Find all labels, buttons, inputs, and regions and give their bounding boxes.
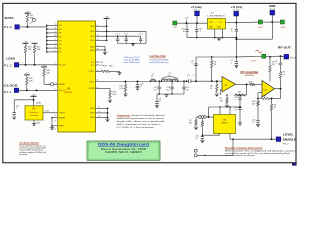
svg-text:12: 12 (54, 129, 56, 131)
wire IOUTB row (96, 88, 111, 89)
wire P1.4 (196, 16, 198, 24)
wire C11 gnd (239, 111, 241, 123)
svg-text:"+12V": "+12V" (257, 27, 263, 29)
ground U1 (32, 124, 36, 127)
svg-text:D0: D0 (59, 52, 61, 54)
svg-text:1.0: 1.0 (151, 76, 154, 78)
connector P1.3 pad (15, 25, 19, 29)
resistor R11 (26, 13, 34, 27)
connector P1.5 GND (269, 5, 276, 15)
power +5V flag R12 (23, 41, 29, 43)
svg-text:14 (E): 14 (E) (36, 103, 42, 105)
svg-text:U4a: U4a (224, 85, 227, 87)
capacitor C14 (13, 100, 20, 116)
title block (87, 141, 160, 160)
resistor R16 (43, 68, 51, 78)
wire tp to gnd node (262, 21, 280, 23)
svg-text:C1 .1: C1 .1 (115, 34, 120, 36)
power +5V flag R13 (32, 42, 38, 44)
svg-text:2.2: 2.2 (252, 122, 255, 124)
svg-text:GND: GND (90, 108, 95, 110)
ground AGND (103, 52, 107, 55)
svg-text:Low Pass Filter: Low Pass Filter (150, 54, 166, 58)
node bypass gnd rail (118, 43, 146, 45)
svg-text:.1: .1 (230, 63, 232, 65)
DDS chip U2 AD9851 (58, 21, 96, 132)
ground U3 rail (217, 38, 221, 41)
svg-text:1.2: 1.2 (168, 75, 171, 77)
ground R3 (215, 94, 219, 97)
svg-text:smooths DDS output steps: smooths DDS output steps (150, 61, 169, 64)
wires NC stubs (96, 62, 105, 67)
svg-text:82: 82 (154, 90, 156, 92)
svg-text:CLKIN: CLKIN (59, 113, 65, 115)
ground C11 (238, 123, 242, 126)
svg-text:110: 110 (166, 90, 169, 92)
wire +V to GND tps (236, 21, 258, 24)
resistor R24 wiper (201, 118, 203, 136)
svg-text:D7: D7 (59, 37, 61, 39)
resistor R7 out (279, 66, 285, 89)
connector P1.4 +5 out (191, 6, 202, 16)
testpoint +12V in (257, 20, 263, 29)
svg-text:AD9851: AD9851 (65, 91, 74, 94)
inductor L3 (170, 79, 178, 81)
svg-text:8: 8 (55, 89, 56, 91)
wire U5 in (206, 116, 214, 118)
connector P1.7 LEVEL ENABLE (276, 133, 296, 145)
svg-text:82: 82 (187, 90, 189, 92)
svg-text:.1: .1 (275, 63, 277, 65)
wires VDD stubs (96, 26, 107, 40)
node data bus (46, 25, 48, 53)
svg-text:bar and jumpers are placed.: bar and jumpers are placed. (225, 154, 256, 157)
capacitor C17 (154, 81, 161, 94)
trimpot R22 (196, 116, 206, 119)
ground DACBL (50, 128, 54, 131)
wires AGND stubs (96, 47, 106, 53)
wires U2 GND stubs (96, 107, 109, 119)
capacitor C15 (136, 82, 145, 89)
capacitor C10 chain (234, 94, 242, 101)
svg-text:GND: GND (269, 5, 276, 8)
svg-text:VDD: VDD (90, 40, 95, 42)
wire U5 source (202, 134, 219, 136)
wire interstage (236, 83, 249, 85)
wires U5 top stubs (220, 107, 230, 115)
connector P1.8 RF OUT (278, 47, 298, 60)
wire U4b out (275, 88, 282, 90)
capacitor C16 (195, 135, 204, 140)
capacitor C11 chain (234, 101, 242, 112)
wire enable (230, 134, 276, 141)
svg-text:D4: D4 (59, 25, 61, 27)
ground R14 (117, 73, 121, 76)
resistor R13 (33, 44, 41, 65)
resistor R19 series (249, 81, 263, 85)
wire U4b feedback (257, 89, 280, 100)
wire DATA (19, 26, 47, 28)
svg-text:RF OUT: RF OUT (278, 47, 292, 50)
wire RSET pin (51, 125, 58, 131)
off-page node E (30, 18, 36, 24)
capacitor C18 (166, 81, 173, 94)
capacitor C7 supply (230, 56, 238, 65)
connector P1.6 +V in (231, 6, 243, 16)
capacitor C9 out (275, 56, 282, 66)
svg-text:3.9K: 3.9K (109, 66, 114, 68)
svg-text:3.9K: 3.9K (119, 88, 124, 90)
node VDD rail (106, 18, 108, 41)
wires D0-D7 stubs (47, 25, 58, 52)
svg-text:P1.2: P1.2 (4, 64, 13, 68)
annotation gain control (225, 146, 295, 157)
annotation components (117, 114, 166, 129)
svg-text:P1.3: P1.3 (4, 25, 13, 29)
svg-text:.1: .1 (235, 99, 237, 101)
svg-text:LEVEL: LEVEL (283, 133, 294, 136)
capacitor C19 (182, 81, 189, 94)
ground U2 GND bus (105, 119, 109, 122)
svg-text:+5 (out): +5 (out) (191, 6, 202, 9)
svg-text:GND: GND (90, 117, 95, 119)
connector P1.1 CLOCK label (4, 83, 19, 94)
svg-text:W_CLK: W_CLK (59, 65, 66, 67)
power +5V flag R11 (24, 11, 30, 13)
svg-text:C2 .1: C2 .1 (124, 34, 129, 36)
resistor R5 (220, 95, 229, 105)
op-amp U4a (222, 77, 236, 93)
resistor R14 (100, 66, 113, 73)
ground C15 (135, 88, 139, 91)
svg-text:BF998: BF998 (222, 123, 228, 125)
svg-text:249: 249 (220, 100, 223, 102)
capacitor C13 (181, 23, 188, 37)
jumper J1 (194, 149, 197, 157)
svg-text:"+12V": "+12V" (250, 60, 256, 62)
svg-text:3.9K: 3.9K (112, 94, 117, 96)
capacitor C2 bypass (124, 34, 129, 44)
node gnd rail right (235, 22, 272, 40)
inductor L2 (162, 73, 178, 82)
capacitor C2b (230, 28, 238, 57)
svg-text:4 (O): 4 (O) (45, 111, 50, 113)
svg-text:AD8008: AD8008 (245, 74, 254, 77)
svg-text:.1: .1 (16, 108, 18, 110)
resistor R6 feedback (234, 92, 247, 96)
wire VDD branch A (107, 31, 146, 43)
wire LPF chain (149, 80, 189, 82)
svg-text:.1: .1 (231, 31, 233, 33)
op-amp U4b (262, 81, 275, 98)
svg-text:2: 2 (55, 43, 56, 45)
svg-text:4.7: 4.7 (195, 138, 198, 140)
resistor R20 (252, 100, 259, 119)
pin numbers D0-D7 (55, 24, 57, 53)
capacitor C1 bypass (115, 34, 120, 44)
svg-text:49.9: 49.9 (249, 81, 253, 83)
ground bypass (131, 44, 135, 47)
annotation Low Pass Filter heading (150, 54, 166, 58)
svg-text:N.C.: N.C. (100, 62, 104, 64)
svg-text:VDD: VDD (90, 26, 95, 28)
wire RESET (44, 78, 57, 85)
power +5V flag U1 (31, 94, 37, 96)
svg-text:D3: D3 (59, 40, 61, 42)
resistor R3 input (210, 81, 218, 93)
testpoint GND (280, 20, 286, 29)
svg-text:51: 51 (210, 88, 212, 90)
svg-text:"+5V": "+5V" (172, 27, 177, 29)
ground LPF (164, 95, 168, 98)
wire IOUT main (96, 81, 149, 83)
resistor R17 (119, 82, 126, 95)
annotation RF Amplifier heading (240, 71, 258, 77)
svg-text:values of capacitance are in m: values of capacitance are in micro- (117, 117, 166, 120)
wire +5 rail (177, 22, 208, 24)
ground C7 (234, 65, 238, 68)
scope probe mark (256, 50, 262, 53)
svg-text:LOAD: LOAD (6, 56, 16, 60)
svg-text:GND: GND (217, 27, 222, 29)
ground C16 (200, 140, 204, 143)
oscillator U1 (25, 106, 43, 120)
svg-text:Oscillator: Oscillator (30, 114, 39, 117)
wire U1 gnd (34, 120, 40, 124)
wire U1 supply (14, 96, 41, 106)
wire jumper (197, 139, 233, 156)
svg-text:9: 9 (55, 115, 56, 117)
resistor R8 feedback (260, 96, 272, 100)
power +5V flag R16 (41, 65, 47, 67)
svg-text:13: 13 (98, 116, 100, 118)
annotation signal level (124, 57, 141, 64)
svg-text:D2: D2 (59, 44, 61, 46)
capacitor C4 (155, 94, 161, 105)
capacitor C8 (195, 23, 202, 37)
ground C4 (155, 105, 159, 108)
svg-text:VDD: VDD (90, 36, 95, 38)
connector P1.1 pad (14, 88, 18, 92)
svg-text:GND: GND (209, 27, 214, 29)
svg-text:19: 19 (98, 112, 100, 114)
off-page node reset (49, 83, 58, 86)
svg-text:C3 .1: C3 .1 (138, 34, 143, 36)
wire QOUT row (96, 70, 101, 72)
wire VDD branch B (107, 35, 141, 37)
regulator U3 (207, 13, 226, 30)
wire CLOCK (19, 89, 58, 91)
svg-text:GND: GND (90, 113, 95, 115)
resistor R12 (24, 44, 32, 65)
capacitor C12 (252, 119, 260, 124)
testpoint +12V (250, 54, 265, 62)
svg-text:LM78M05: LM78M05 (207, 16, 226, 18)
svg-text:k = 1,000. +L = No connectio: k = 1,000. +L = No connection. (117, 126, 156, 129)
svg-text:farads (uF); others are in pic: farads (uF); others are in picofarads (117, 120, 165, 123)
wire gate over U5 (209, 106, 241, 117)
wires U3 gnd (215, 29, 223, 38)
pin numbers U2 right (97, 25, 99, 89)
svg-text:51: 51 (283, 74, 285, 76)
svg-text:28: 28 (55, 35, 57, 37)
svg-text:27: 27 (55, 31, 57, 33)
level FET U5 (214, 115, 236, 134)
svg-text:10: 10 (183, 31, 185, 33)
svg-text:1: 1 (55, 39, 56, 41)
wire LPF out (195, 80, 222, 82)
power +5V flag rail (185, 18, 189, 24)
wire +12V rail (236, 55, 281, 57)
wire DACBL (51, 117, 58, 128)
connector P1.2 pad (14, 63, 18, 67)
svg-text:D5: D5 (59, 29, 61, 31)
svg-text:RESET: RESET (59, 84, 66, 86)
svg-text:249: 249 (252, 103, 255, 105)
resistor R21 gain (270, 99, 276, 140)
power +5V flag U2 (104, 17, 110, 19)
capacitor C3 bypass (138, 34, 143, 44)
svg-text:DATA: DATA (5, 16, 15, 20)
ground R5 (225, 105, 229, 108)
connector P1.3 DATA label (4, 16, 15, 29)
svg-text:GND: GND (90, 50, 95, 52)
svg-text:17: 17 (54, 120, 56, 122)
wire U3 in (226, 22, 237, 24)
resistor R23 (189, 117, 198, 127)
annotation oscillator module (19, 142, 46, 156)
svg-text:Reference: Reference (29, 112, 39, 114)
svg-text:"GND": "GND" (280, 27, 286, 29)
svg-text:25: 25 (55, 24, 57, 26)
svg-text:package: package (19, 154, 27, 156)
svg-text:+V (in): +V (in) (231, 6, 243, 9)
ground R17 (123, 94, 127, 97)
svg-text:Except as indicated, decimal: Except as indicated, decimal (132, 114, 166, 117)
svg-text:N2APB, N2CX, NE9RV: N2APB, N2CX, NE9RV (105, 151, 143, 154)
testpoint +5V (172, 21, 177, 29)
annotation LPF text (150, 59, 169, 65)
wire U4b inv input (258, 93, 262, 99)
svg-text:.1: .1 (191, 63, 193, 65)
svg-text:26: 26 (55, 28, 57, 30)
svg-text:P1.1: P1.1 (4, 90, 13, 94)
resistor R18 (109, 90, 117, 100)
ground R18 (108, 100, 112, 103)
svg-text:ENABLE: ENABLE (283, 138, 297, 141)
svg-text:RSET: RSET (59, 126, 65, 128)
ground R23 (194, 127, 198, 130)
svg-text:DDS-60 Daughtercard: DDS-60 Daughtercard (98, 143, 149, 147)
svg-text:7: 7 (55, 63, 56, 65)
svg-text:D1: D1 (59, 48, 61, 50)
svg-text:10: 10 (98, 107, 100, 109)
svg-text:VDD: VDD (90, 31, 95, 33)
border frame (0, 0, 300, 166)
wire P1.5 down (271, 15, 273, 22)
resistor R9 bias (269, 56, 275, 81)
svg-text:7 (E): 7 (E) (36, 122, 40, 124)
ground C12 (256, 124, 260, 127)
wire LOAD (19, 63, 58, 65)
node gnd rail U3 (187, 37, 236, 39)
svg-text:249: 249 (263, 96, 266, 98)
svg-text:U4b: U4b (264, 89, 267, 91)
svg-text:.1: .1 (199, 31, 201, 33)
svg-text:into 50Ω load: into 50Ω load (124, 61, 140, 64)
svg-text:IOUTB: IOUTB (88, 88, 95, 90)
watermark corner mark (292, 163, 297, 166)
svg-text:4: 4 (55, 50, 56, 52)
wire U4a feedback (221, 84, 247, 95)
wire U1 out (43, 111, 58, 118)
svg-text:11: 11 (97, 30, 99, 32)
svg-text:DACBL: DACBL (59, 116, 65, 119)
svg-text:CLOCK: CLOCK (4, 83, 18, 87)
wire QOUT gnd lead (111, 71, 120, 72)
connector P1.2 LOAD label (4, 56, 16, 67)
ground C14 (12, 117, 16, 120)
capacitor C6 (191, 61, 198, 81)
svg-text:10: 10 (159, 101, 161, 103)
power +5V flag R15 (24, 73, 30, 75)
resistor R15 (26, 76, 34, 91)
resistor R4 bias (211, 57, 217, 81)
capacitor C5 series (187, 75, 196, 83)
svg-text:(pF); resistances are in ohms;: (pF); resistances are in ohms; (117, 123, 162, 126)
svg-text:249: 249 (238, 92, 241, 94)
node LPF gnd rail (157, 93, 184, 95)
svg-text:4.7: 4.7 (234, 110, 237, 112)
wire bias rail (196, 56, 236, 63)
svg-text:QOUT: QOUT (89, 71, 95, 73)
wire P1.6 down (235, 16, 237, 39)
svg-text:D6: D6 (59, 33, 61, 35)
svg-text:3: 3 (55, 47, 56, 49)
svg-text:GND: GND (90, 46, 95, 48)
inductor L1 (151, 74, 156, 82)
wire RF out node (281, 55, 285, 57)
